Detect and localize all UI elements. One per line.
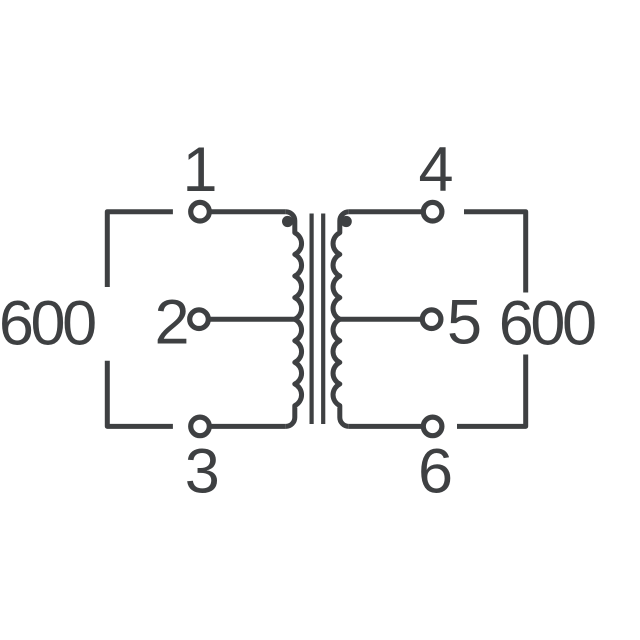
svg-text:2: 2 [154,288,189,358]
svg-text:3: 3 [185,437,220,507]
polarity dot primary [282,216,293,227]
left impedance bracket top [107,212,173,287]
core line left [310,214,314,425]
wire pin2 to primary tap [209,317,296,322]
svg-text:5: 5 [447,288,482,358]
svg-text:6: 6 [418,437,453,507]
right impedance bracket bottom [457,355,526,427]
wire pin4 to secondary [349,209,424,214]
pin 3 [191,417,210,436]
svg-text:4: 4 [418,135,453,205]
pin 6 [423,417,442,436]
svg-text:600: 600 [0,289,95,359]
svg-text:600: 600 [499,289,595,359]
primary winding [286,212,302,427]
secondary winding [333,212,349,427]
polarity dot secondary [341,216,352,227]
pin 4 [423,202,442,221]
wire pin1 to primary [209,209,286,214]
wire pin5 to secondary tap [339,317,424,322]
right impedance bracket top [464,212,526,293]
wire pin6 to secondary [349,424,424,429]
wire pin3 to primary [209,424,286,429]
core line right [321,214,325,425]
left impedance bracket bottom [107,361,173,427]
pin 1 [191,202,210,221]
svg-text:1: 1 [182,135,217,205]
pin 2 [190,310,209,329]
pin 5 [422,310,441,329]
